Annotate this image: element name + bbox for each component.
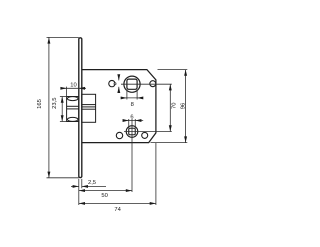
8 vertical dim (hole dia) xyxy=(118,75,120,81)
74 arrows xyxy=(79,202,85,205)
svg-text:6: 6 xyxy=(130,114,133,120)
svg-text:96: 96 xyxy=(180,103,186,109)
50 arrows xyxy=(79,189,85,192)
8 horizontal arrows xyxy=(121,96,127,99)
2,5 arrows (outside) xyxy=(73,185,79,188)
bottom follower xyxy=(126,126,138,138)
faceplate xyxy=(79,38,82,178)
svg-text:50: 50 xyxy=(101,193,107,199)
23,5 arrows xyxy=(61,97,64,103)
svg-text:10: 10 xyxy=(70,83,76,89)
svg-text:74: 74 xyxy=(114,207,121,213)
8 horizontal dim xyxy=(126,90,128,100)
svg-text:8: 8 xyxy=(113,82,119,85)
bottom-left screw hole xyxy=(116,132,122,138)
10 arrows (outside) xyxy=(60,87,66,90)
70 dim xyxy=(169,84,171,131)
top follower (spindle hole) xyxy=(124,76,140,92)
svg-text:2,5: 2,5 xyxy=(88,180,96,186)
dimension labels xyxy=(37,82,186,213)
96 arrows xyxy=(184,70,187,76)
bottom-right screw hole xyxy=(142,132,148,138)
50 dim xyxy=(79,190,132,192)
latch bolt xyxy=(67,97,79,122)
6 arrows xyxy=(123,119,129,122)
6 dim xyxy=(128,119,130,128)
165 dim xyxy=(47,36,79,38)
70 arrows xyxy=(169,84,172,90)
follower centerlines xyxy=(121,83,172,85)
svg-text:165: 165 xyxy=(37,99,43,109)
latch housing block xyxy=(82,94,96,122)
svg-text:70: 70 xyxy=(171,102,177,108)
arrowheads xyxy=(47,37,187,204)
96 dim xyxy=(158,69,188,71)
8 vertical arrows xyxy=(117,74,120,80)
10 dim xyxy=(66,87,68,97)
svg-text:8: 8 xyxy=(131,102,134,108)
2,5 dim xyxy=(78,179,80,205)
23,5 dim xyxy=(60,96,67,98)
svg-text:23,5: 23,5 xyxy=(52,98,58,109)
top-right chamfer hole xyxy=(150,81,156,87)
lock body outline xyxy=(82,70,156,143)
thin dimension/extension lines xyxy=(47,37,188,205)
74 dim xyxy=(155,143,157,205)
165 arrows xyxy=(47,37,50,43)
top-left screw hole xyxy=(109,80,115,86)
